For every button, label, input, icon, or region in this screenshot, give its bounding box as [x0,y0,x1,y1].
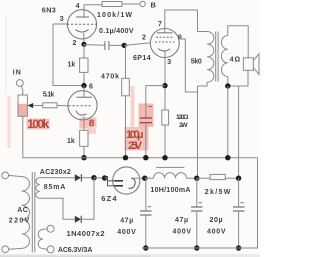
cathode V1a [76,30,89,33]
node plate V1b [81,83,86,88]
wire D1 to node [81,177,94,179]
cathode 6P14 [158,49,170,52]
wire HT top to diode1 [40,177,75,179]
wire 470k to ground rail [125,96,127,158]
wire D2 up to node [81,178,94,220]
node B+ first [142,176,147,181]
wire feedback grid V1a to plate V1b [53,24,81,86]
wire plate 6P14 to OT primary [165,10,207,33]
wire node to 470k [125,45,127,78]
node ground 100u [143,155,148,160]
svg-text:120Ω: 120Ω [176,114,189,121]
highlight 100u cap [139,104,154,128]
wire cathode node to 100u [146,85,165,87]
highlight streak right of 470k [131,86,135,150]
6Z4 cathode [129,178,136,188]
node B+ out [236,176,241,181]
wire node 2 to coupling cap [84,44,105,47]
svg-text:1N4007x2: 1N4007x2 [67,229,105,238]
screen grid dashed [156,36,174,38]
wire screen pin9 to B+ [179,39,197,92]
svg-text:1k: 1k [68,61,76,68]
wire 120R to ground [164,125,166,158]
wire 1k to node 6 [83,72,85,85]
node ground 1k [81,155,86,160]
node rail secondary [225,155,230,160]
node ground 470k [123,155,128,160]
svg-text:2k/5W: 2k/5W [205,189,231,196]
grid V1a dashed [67,23,97,25]
node cathode V1a [81,42,86,47]
node rail cap1 [143,245,148,250]
plate V1a [76,16,89,18]
resistor 470k [122,78,130,96]
svg-text:5k0: 5k0 [191,59,202,66]
svg-text:3: 3 [60,16,64,23]
svg-text:0.1µ/400V: 0.1µ/400V [99,28,134,35]
svg-text:AC6.3V/3A: AC6.3V/3A [58,247,93,254]
transformer OT secondary [221,36,227,77]
svg-text:2: 2 [73,40,77,47]
svg-text:IN: IN [13,70,21,77]
svg-text:5.1k: 5.1k [43,91,55,98]
diode D1 [75,174,81,181]
svg-text:7: 7 [158,21,162,28]
node secondary ground [225,83,230,88]
plate V1b lead [83,86,85,98]
svg-text:6N3: 6N3 [42,6,56,15]
wire cap to node grid 6P14 [109,44,124,46]
wire cathode V1b down [83,117,85,131]
wire grid V1a to left [53,23,67,25]
wire 6Z4 cathode out [131,177,145,179]
svg-text:220V: 220V [9,217,30,224]
wire node to 1k [83,44,85,58]
wire HT bottom to diode2 [40,198,75,219]
capacitor 0.1u/400V [104,41,106,50]
scan artifact left fold line [5,14,7,95]
heater terminals [47,225,54,232]
grid V1b dashed [69,105,92,107]
node B+ second [194,176,199,181]
svg-text:400V: 400V [117,229,136,236]
bottom rail [142,158,258,248]
cathode V1b [76,111,87,116]
PT heater winding [38,229,43,248]
svg-text:4Ω: 4Ω [230,57,241,64]
highlight 100k text [27,119,50,130]
capacitor 47u/400V no2 [196,178,198,207]
svg-text:2: 2 [142,34,146,41]
6Z4 plates [105,177,108,179]
wire wiper to 5.1k [33,105,43,107]
plate V1b [76,96,92,98]
ground rail [23,157,258,159]
PT core [31,172,33,253]
svg-text:1k: 1k [67,138,75,145]
highlight 100u/25V text [125,127,149,151]
wire B+ riser right [238,86,240,178]
svg-text:9: 9 [178,34,182,41]
wire node to 6Z4 plates [94,177,105,179]
svg-text:8: 8 [89,119,95,130]
plate 6P14 [157,32,173,34]
potentiometer 100k body [18,95,27,116]
svg-text:20µ: 20µ [210,217,223,224]
PT HT secondary [36,178,40,199]
wire pot bottom to ground rail [22,116,24,157]
terminal IN [16,80,23,87]
wire cathode 6P14 down [164,52,166,111]
resistor 120R [162,110,169,125]
svg-text:85mA: 85mA [44,184,66,191]
resistor 2k/5W [197,177,210,179]
node diodes [91,175,96,180]
svg-text:4: 4 [76,3,80,10]
svg-text:10H/100mA: 10H/100mA [150,187,190,194]
diode D2 [75,216,81,223]
wire secondary bottom [227,77,229,86]
tube 6P14 [150,29,179,58]
wire cathode V1a down [83,33,85,44]
tube 6Z4 [113,167,140,194]
wire node to 6P14 grid [124,43,151,46]
tube 6N3 section B [68,91,97,120]
node rail cap3 [236,245,241,250]
wire 1k to ground rail [83,146,85,157]
inductor choke 10H/100mA [145,177,154,179]
tube 6N3 section A [67,10,96,39]
node 6Z4 plates [102,175,107,180]
wire OT primary bottom [198,82,208,86]
wire secondary ground down [227,86,229,158]
capacitor 47u/400V no1 [145,178,147,211]
wire speaker bottom [228,70,248,86]
svg-text:47µ: 47µ [175,217,188,224]
svg-text:6Z4: 6Z4 [101,194,117,203]
svg-text:B: B [151,0,157,9]
wire IN to pot [21,86,23,95]
svg-text:2W: 2W [179,122,188,129]
wire B+ to OT/screen [197,86,199,178]
svg-text:47µ: 47µ [120,218,133,225]
transformer OT primary [207,32,214,83]
node ground 120R [162,155,167,160]
wire 5.1k to grid V1b [57,105,69,107]
resistor 5.1k [43,103,57,108]
svg-text:6P14: 6P14 [133,55,151,62]
power transformer primary [2,172,9,179]
svg-text:AC: AC [17,207,28,214]
capacitor 100u/25V red [145,86,147,118]
svg-text:6: 6 [89,84,93,91]
wire 6N3a plate to top rail [84,5,102,17]
speaker [243,58,253,71]
pot wiper arrow [27,103,33,108]
highlight streak left edge [8,96,11,148]
resistor 1k (SRPP) [80,58,88,72]
wire to B [122,3,140,5]
svg-text:100k/1W: 100k/1W [97,12,132,19]
svg-text:3: 3 [167,59,171,66]
polarity mark 100u [149,106,153,108]
highlight pin 8 [80,118,97,129]
resistor 100k/1W [102,2,122,7]
svg-text:AC230x2: AC230x2 [40,169,71,176]
control grid dashed [155,41,175,43]
terminal B [140,1,145,6]
node cathode 6P14 [162,83,167,88]
capacitor 20u/400V [238,178,240,207]
svg-text:400V: 400V [207,229,226,236]
svg-text:470k: 470k [101,74,119,81]
OT core [215,32,217,82]
scan artifact bottom edge [0,254,260,257]
highlight pot lower half [18,104,28,117]
svg-text:100k: 100k [27,117,49,131]
node rail cap2 [194,245,199,250]
wire secondary top to speaker [228,26,248,58]
resistor 1k cathode [80,130,88,146]
node grid 6P14 [122,43,127,48]
svg-text:25V: 25V [128,140,143,152]
svg-text:400V: 400V [173,229,192,236]
